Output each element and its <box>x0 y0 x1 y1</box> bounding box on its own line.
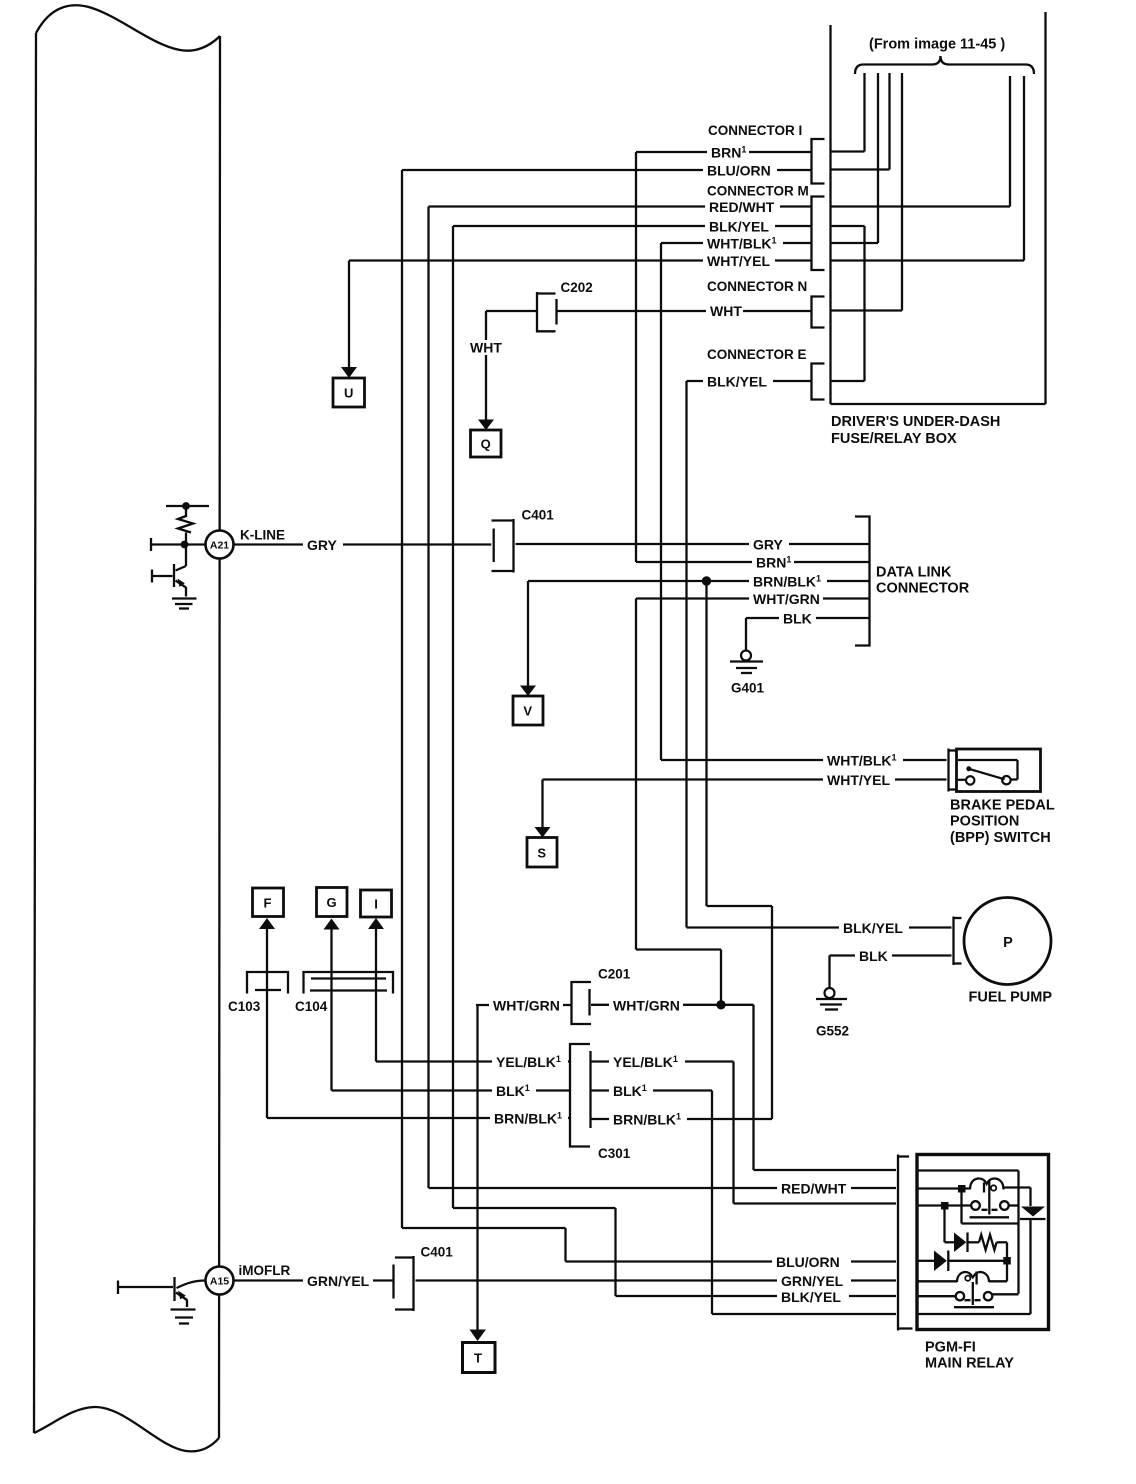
BPP right contact <box>1002 776 1010 784</box>
wire BRN/BLK1: V corner to DLC <box>528 580 707 582</box>
svg-text:CONNECTOR M: CONNECTOR M <box>707 184 809 199</box>
arrowhead into G <box>324 919 340 930</box>
page arrow box V <box>513 696 543 725</box>
transistor base bar <box>173 1277 175 1301</box>
relay wire BLK/YEL to switch 2 <box>919 1295 956 1297</box>
wire BRN1: connector I to DLC <box>636 151 812 153</box>
relay switch 2 blade (open, dashed) <box>965 1299 984 1301</box>
svg-text:RED/WHT: RED/WHT <box>709 199 775 215</box>
node at K-LINE <box>181 541 188 548</box>
relay switch 2 left contact <box>956 1292 964 1300</box>
wire emitter to ground <box>186 1300 188 1308</box>
net BLK/YEL label (relay) <box>777 1288 849 1305</box>
diode D1 (right) <box>934 1251 947 1272</box>
svg-text:WHT/GRN: WHT/GRN <box>613 997 680 1013</box>
svg-text:BLK1: BLK1 <box>496 1083 530 1099</box>
connector C401 (A15) right half <box>412 1256 414 1311</box>
svg-text:MAIN RELAY: MAIN RELAY <box>925 1356 1014 1372</box>
wire rail to resistor <box>185 506 187 517</box>
arrowhead into T <box>470 1330 487 1342</box>
brace <box>855 56 1034 74</box>
transistor base lead <box>153 575 173 577</box>
svg-text:BLK/YEL: BLK/YEL <box>781 1289 841 1305</box>
svg-text:P: P <box>1003 935 1013 951</box>
page arrow box U <box>333 378 365 407</box>
svg-text:WHT/BLK1: WHT/BLK1 <box>827 753 897 769</box>
arrowhead into F <box>259 918 275 929</box>
svg-text:WHT: WHT <box>710 303 742 319</box>
junction node coil 1 <box>958 1185 966 1193</box>
relay switch 1 blade (open, dashed) <box>982 1209 1001 1211</box>
svg-text:BLK/YEL: BLK/YEL <box>707 374 767 390</box>
arrowhead into S <box>535 827 551 838</box>
connector C103 <box>247 972 288 994</box>
relay switch 2 right contact <box>984 1292 992 1300</box>
junction node BRN/BLK1 <box>702 577 710 585</box>
base lead end tick <box>151 570 153 583</box>
connector C401 (A15) left half <box>392 1265 394 1299</box>
page arrow box G <box>317 888 348 917</box>
svg-text:CONNECTOR N: CONNECTOR N <box>707 279 807 294</box>
wire YEL/BLK1: C301 to relay <box>591 1060 734 1062</box>
svg-text:DATA LINK: DATA LINK <box>876 565 952 581</box>
relay wire RED/WHT to coil 1 <box>919 1187 971 1189</box>
base lead end tick <box>117 1281 119 1295</box>
svg-text:CONNECTOR E: CONNECTOR E <box>707 347 807 362</box>
wire inside box: WHT/BLK1 feed <box>877 73 879 243</box>
svg-text:C201: C201 <box>598 967 631 982</box>
BPP switch connector bar <box>947 749 949 792</box>
data link connector bracket <box>855 517 870 646</box>
wire BRN/BLK1: C301 to junction branch <box>591 1118 773 1120</box>
relay wire switch1 node down <box>943 1206 945 1243</box>
svg-text:C401: C401 <box>421 1245 454 1260</box>
wire WHT/YEL: S corner to BPP switch <box>543 778 947 780</box>
svg-text:GRY: GRY <box>307 537 337 553</box>
arrowhead into Q <box>478 420 494 431</box>
wire emitter to ground <box>185 587 187 597</box>
svg-text:WHT/GRN: WHT/GRN <box>493 998 560 1014</box>
fuse box bottom edge <box>831 403 1046 405</box>
svg-text:V: V <box>523 704 532 719</box>
svg-text:C104: C104 <box>295 999 328 1014</box>
wire BLK/YEL: connector M down to relay <box>453 225 812 227</box>
svg-text:GRN/YEL: GRN/YEL <box>781 1273 844 1289</box>
resistor R1 <box>979 1235 997 1250</box>
svg-text:WHT: WHT <box>470 340 502 356</box>
relay wire BLK1 bottom <box>919 1313 1031 1315</box>
BPP switch box <box>957 749 1041 792</box>
connector C301 <box>570 1044 590 1147</box>
net WHT/BLK1 label (BPP) <box>823 752 903 769</box>
wire diode to BLK1 <box>1029 1219 1031 1314</box>
svg-text:G401: G401 <box>731 681 765 696</box>
svg-text:BRN/BLK1: BRN/BLK1 <box>613 1112 681 1128</box>
svg-text:FUSE/RELAY BOX: FUSE/RELAY BOX <box>831 431 957 447</box>
relay switch 1 right contact <box>1000 1201 1009 1210</box>
wire WHT: Q stem <box>485 311 487 420</box>
wire inside box: BRN1 feed <box>863 73 865 152</box>
wire WHT/GRN: C201 to relay <box>591 1004 754 1006</box>
relay wire WHT/GRN top loop <box>919 1169 1019 1171</box>
connector I bracket <box>812 139 825 184</box>
svg-text:BLK: BLK <box>859 948 888 964</box>
relay connector bar <box>897 1155 899 1331</box>
svg-text:BLK1: BLK1 <box>613 1083 647 1099</box>
wire U stem (WHT/YEL to image U) <box>348 261 350 369</box>
wire S stem <box>541 780 543 828</box>
svg-text:F: F <box>264 896 272 911</box>
pin A21 <box>206 531 234 559</box>
svg-text:(From image 11-45 ): (From image 11-45 ) <box>869 37 1005 53</box>
wire BRN/BLK1 branch down <box>705 581 707 906</box>
svg-text:GRY: GRY <box>753 537 783 553</box>
svg-text:WHT/BLK1: WHT/BLK1 <box>707 236 777 252</box>
wire WHT: C202 to connector N <box>557 310 812 312</box>
wire YEL/BLK1: I to C301 <box>376 1060 570 1062</box>
transistor emitter with arrow <box>176 581 187 588</box>
relay coil 1 <box>970 1179 1004 1190</box>
connector C401 (GRY) left half <box>493 529 495 563</box>
wire GRN/YEL: C401 to relay <box>416 1279 897 1281</box>
relay coil 2 <box>957 1272 989 1282</box>
net BLK/YEL label (fuel pump) <box>839 919 909 936</box>
svg-text:A21: A21 <box>210 540 229 552</box>
svg-text:DRIVER'S UNDER-DASH: DRIVER'S UNDER-DASH <box>831 414 1000 430</box>
wire resistor to node <box>185 533 187 567</box>
connector C202 right half <box>555 299 557 325</box>
wire GRY: C401 to data link connector <box>516 543 870 545</box>
relay switch 1 common bar <box>970 1216 1010 1218</box>
net WHT/YEL label (BPP) <box>823 771 895 788</box>
transistor Q (A15 driver) collector lead <box>177 1281 206 1289</box>
arrowhead into U <box>341 367 357 378</box>
ground G552 <box>825 988 835 998</box>
svg-text:BRN1: BRN1 <box>711 145 746 161</box>
diode D2 (right) <box>954 1233 966 1253</box>
wire inside box: BLU/ORN feed <box>888 73 890 170</box>
relay armature 2 <box>972 1282 974 1305</box>
junction node D1 out <box>1003 1257 1011 1265</box>
svg-text:CONNECTOR: CONNECTOR <box>876 581 970 597</box>
wire I stem <box>375 929 377 1062</box>
relay wire BLU/ORN to D1 <box>919 1260 935 1262</box>
svg-text:BLU/ORN: BLU/ORN <box>707 163 771 179</box>
wire G stem <box>330 929 332 1091</box>
svg-text:(BPP) SWITCH: (BPP) SWITCH <box>950 830 1051 846</box>
relay wire GRN/YEL to coil 2 <box>919 1280 958 1282</box>
wire WHT/YEL: connector M to image U <box>349 259 812 261</box>
wire K-LINE internal lead <box>152 543 206 545</box>
svg-text:A15: A15 <box>210 1276 229 1288</box>
wire BRN/BLK1: F to C301 <box>267 1117 570 1119</box>
wire WHT/GRN: DLC to junction <box>636 597 870 599</box>
junction node WHT/GRN <box>717 1001 725 1009</box>
relay coil 1 right lead <box>1004 1186 1031 1188</box>
BPP left contact <box>958 779 966 781</box>
transistor base lead <box>119 1286 174 1288</box>
pin A15 <box>206 1267 234 1295</box>
svg-text:S: S <box>537 846 546 861</box>
wire inside box: BLK/YEL M to E link <box>831 225 865 227</box>
wire RED/WHT: connector M down to relay <box>429 205 812 207</box>
connector C202 left half <box>536 292 538 333</box>
net GRN/YEL label (relay) <box>777 1272 851 1289</box>
wire BLK1: G to C301 <box>332 1089 571 1091</box>
connector C104 <box>304 972 394 994</box>
ECM module torn outline <box>36 5 220 50</box>
transistor base bar <box>173 564 175 587</box>
wire inside box: RED/WHT feed <box>1009 76 1011 207</box>
connector C401 (GRY) right half <box>512 519 514 573</box>
fuse box left edge <box>829 25 831 404</box>
ground G401 <box>741 651 751 661</box>
fuel pump connector bracket <box>952 917 954 966</box>
svg-text:WHT/GRN: WHT/GRN <box>753 591 820 607</box>
wire WHT: Q corner to C202 <box>486 310 537 312</box>
svg-text:BRN1: BRN1 <box>756 555 791 571</box>
relay wire loop at 1223 <box>962 1222 1019 1224</box>
internal pull-up rail at A21 <box>166 505 209 507</box>
relay switch 2 common bar <box>954 1306 994 1308</box>
wire BLK1: C301 to relay <box>591 1089 713 1091</box>
wire BLK: fuel pump to G552 <box>830 954 952 956</box>
svg-text:POSITION: POSITION <box>950 814 1019 830</box>
svg-text:GRN/YEL: GRN/YEL <box>307 1273 370 1289</box>
wire BLK: DLC to G401 <box>746 617 870 619</box>
svg-text:iMOFLR: iMOFLR <box>239 1263 291 1278</box>
net RED/WHT label (relay) <box>777 1180 851 1197</box>
transistor emitter with arrow <box>176 1293 187 1301</box>
svg-text:BLU/ORN: BLU/ORN <box>776 1254 840 1270</box>
page arrow box S <box>527 838 557 868</box>
svg-text:C202: C202 <box>561 280 593 295</box>
svg-text:BLK: BLK <box>783 611 812 627</box>
wire WHT/GRN: T corner to C201 <box>476 1004 572 1006</box>
svg-text:I: I <box>374 897 378 912</box>
svg-text:C401: C401 <box>522 508 555 523</box>
fuse box right edge <box>1044 12 1046 404</box>
connector C201 <box>572 982 592 1024</box>
svg-text:BLK/YEL: BLK/YEL <box>709 219 769 235</box>
BPP blade <box>969 769 1005 780</box>
wire F stem <box>266 929 268 1119</box>
svg-text:CONNECTOR I: CONNECTOR I <box>708 123 802 138</box>
wire BLU/ORN: connector I down to relay <box>402 169 812 171</box>
diode D3 (down) <box>1021 1207 1045 1217</box>
wire V stem <box>527 581 529 686</box>
svg-text:WHT/YEL: WHT/YEL <box>827 772 890 788</box>
wire GRY: A21 to C401 <box>234 543 492 545</box>
svg-text:C301: C301 <box>598 1146 631 1161</box>
wire WHT/BLK1: connector M to BPP switch <box>661 242 812 244</box>
svg-text:BRN/BLK1: BRN/BLK1 <box>494 1111 562 1127</box>
relay wire YEL/BLK to switch 1 <box>919 1204 972 1206</box>
relay switch 1 left contact <box>971 1201 980 1210</box>
wire inside box: WHT feed <box>901 73 903 311</box>
svg-text:T: T <box>474 1351 482 1366</box>
svg-text:G552: G552 <box>816 1024 849 1039</box>
wire inside box: WHT/YEL feed <box>1023 76 1025 261</box>
page arrow box I <box>361 890 392 917</box>
BPP internal wire WHT/BLK1 <box>958 759 1018 761</box>
junction node switch 1 <box>941 1202 949 1210</box>
PGM-FI main relay box <box>917 1155 1049 1330</box>
wire BLK/YEL: connector E down to fuel pump <box>687 380 812 382</box>
connector E bracket <box>812 364 825 400</box>
net BLU/ORN label (relay) <box>772 1253 851 1270</box>
lead end tick <box>150 538 152 551</box>
relay switch 2 stub <box>992 1293 1018 1295</box>
svg-text:WHT/YEL: WHT/YEL <box>707 253 770 269</box>
ground (A21 emitter) <box>172 597 197 599</box>
relay switch 1 stub <box>1009 1204 1019 1206</box>
svg-text:C103: C103 <box>228 999 261 1014</box>
connector M bracket <box>812 197 825 271</box>
page arrow box Q <box>471 430 502 457</box>
page arrow box T <box>463 1343 496 1373</box>
svg-text:YEL/BLK1: YEL/BLK1 <box>613 1054 678 1070</box>
relay armature 1 <box>988 1181 990 1215</box>
page arrow box F <box>253 888 284 917</box>
svg-text:U: U <box>344 386 353 401</box>
svg-text:K-LINE: K-LINE <box>240 528 285 543</box>
svg-text:FUEL PUMP: FUEL PUMP <box>969 990 1053 1006</box>
arrowhead into V <box>520 686 536 697</box>
svg-text:BRAKE PEDAL: BRAKE PEDAL <box>950 798 1055 814</box>
wire GRN/YEL: A15 to C401 <box>234 1279 394 1281</box>
svg-text:RED/WHT: RED/WHT <box>781 1181 847 1197</box>
arrowhead into I <box>368 918 384 929</box>
wire T stem <box>476 1005 478 1330</box>
svg-text:BRN/BLK1: BRN/BLK1 <box>753 574 821 590</box>
connector N bracket <box>812 297 825 328</box>
svg-text:BLK/YEL: BLK/YEL <box>843 920 903 936</box>
ground (A15 emitter) <box>171 1308 196 1310</box>
svg-text:PGM-FI: PGM-FI <box>925 1340 976 1356</box>
svg-text:Q: Q <box>481 437 491 452</box>
svg-text:YEL/BLK1: YEL/BLK1 <box>496 1054 561 1070</box>
resistor R (pull-up) <box>178 516 193 533</box>
junction dot on rail <box>183 503 190 510</box>
svg-text:G: G <box>326 895 336 910</box>
fuel pump P <box>964 898 1051 985</box>
transistor Q (A21 driver) collector <box>176 566 187 571</box>
